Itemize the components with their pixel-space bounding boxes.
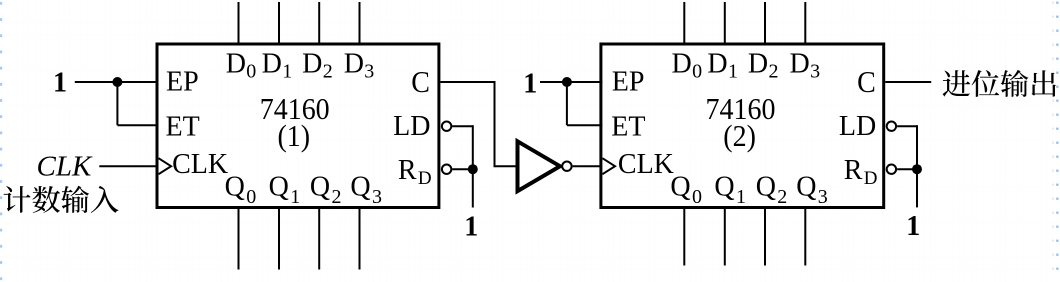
svg-text:1: 1 <box>282 61 292 83</box>
svg-text:1: 1 <box>906 211 920 242</box>
svg-text:EP: EP <box>612 67 645 98</box>
U2 RD active-low bubble <box>887 165 896 174</box>
U1 label (1) <box>277 120 310 153</box>
wire U2 D0 input stub <box>683 2 685 44</box>
wire U1 LD (horizontal from bubble) <box>452 125 473 127</box>
svg-text:C: C <box>857 66 876 99</box>
svg-text:Q: Q <box>796 172 816 203</box>
svg-text:0: 0 <box>692 186 702 208</box>
wire U2 LD (horizontal from bubble) <box>897 125 917 127</box>
svg-text:CLK: CLK <box>618 149 674 180</box>
svg-text:1: 1 <box>523 68 537 99</box>
label 计数输入 (count input) <box>4 186 119 213</box>
svg-text:D: D <box>672 48 692 79</box>
svg-text:(2): (2) <box>723 120 756 153</box>
G1 output bubble <box>562 162 571 171</box>
junction node U2 LD/RD tie <box>912 164 922 174</box>
svg-text:2: 2 <box>769 61 779 83</box>
svg-text:2: 2 <box>777 186 787 208</box>
svg-text:D: D <box>707 48 727 79</box>
wire U1 Q1 output stub <box>278 208 280 270</box>
svg-text:3: 3 <box>372 186 382 208</box>
svg-text:(1): (1) <box>277 120 310 153</box>
svg-text:1: 1 <box>464 211 478 242</box>
wire U1 D2 input stub <box>318 2 320 44</box>
junction node EP/ET tie (U1) <box>112 77 122 87</box>
U1 CLK edge-trigger symbol <box>159 158 172 174</box>
wire junction down (U1 left) <box>116 82 118 125</box>
svg-text:D: D <box>302 48 322 79</box>
svg-text:D: D <box>748 48 768 79</box>
wire U2 D1 input stub <box>724 2 726 44</box>
svg-text:D: D <box>790 48 810 79</box>
wire U2 Q3 output stub <box>804 208 806 266</box>
wire U2 D3 input stub <box>804 2 806 44</box>
counter U2 74160 (2) body <box>601 44 884 208</box>
svg-text:D: D <box>226 48 246 79</box>
U2 CLK edge-trigger symbol <box>602 158 615 174</box>
wire U1 LD (vertical drop) <box>472 125 474 169</box>
wire junction down to constant 1 (U2) <box>916 169 918 207</box>
U2 label 74160 <box>706 93 776 126</box>
wire U2 C output to carry label <box>885 81 931 83</box>
wire U2 Q1 output stub <box>724 208 726 266</box>
U2 LD active-low bubble <box>887 122 896 131</box>
svg-text:D: D <box>262 48 282 79</box>
wire U2 Q2 output stub <box>764 208 766 266</box>
wire to U1 ET <box>117 124 158 126</box>
svg-text:3: 3 <box>818 186 828 208</box>
U1 label 74160 <box>260 93 330 126</box>
svg-text:Q: Q <box>756 172 776 203</box>
U2 label (2) <box>723 120 756 153</box>
wire U1 Q3 output stub <box>359 208 361 270</box>
svg-text:Q: Q <box>714 172 734 203</box>
svg-text:R: R <box>844 155 863 186</box>
svg-text:Q: Q <box>310 172 330 203</box>
wire into inverter G1 input <box>495 165 518 167</box>
svg-text:CLK: CLK <box>172 149 228 180</box>
svg-text:3: 3 <box>810 61 820 83</box>
svg-text:CLK: CLK <box>37 151 93 183</box>
svg-text:3: 3 <box>364 61 374 83</box>
svg-text:D: D <box>344 48 364 79</box>
svg-text:0: 0 <box>246 61 256 83</box>
junction node EP/ET tie (U2) <box>562 77 572 87</box>
svg-text:C: C <box>411 66 430 99</box>
wire G1 output to U2 CLK <box>573 165 601 167</box>
wire U2 RD (horizontal from bubble) <box>897 168 917 170</box>
label 进位输出 (carry output) <box>943 70 1056 97</box>
wire constant-1 to U1 EP <box>75 81 159 83</box>
wire to U2 ET <box>567 124 603 126</box>
svg-text:1: 1 <box>53 68 67 99</box>
wire U1 Q0 output stub <box>238 208 240 270</box>
svg-text:EP: EP <box>166 67 199 98</box>
junction node U1 LD/RD tie <box>468 164 478 174</box>
U1 RD active-low bubble <box>442 165 451 174</box>
counter U1 74160 (1) body <box>157 44 439 208</box>
svg-text:2: 2 <box>323 61 333 83</box>
svg-text:LD: LD <box>839 111 876 142</box>
wire U1 D3 input stub <box>359 2 361 44</box>
U1 pin label C <box>411 66 430 99</box>
svg-text:Q: Q <box>670 172 690 203</box>
wire junction down (U2 left) <box>566 82 568 125</box>
svg-text:1: 1 <box>728 61 738 83</box>
svg-text:Q: Q <box>350 172 370 203</box>
svg-text:1: 1 <box>290 186 300 208</box>
svg-text:Q: Q <box>225 172 245 203</box>
wire U1 RD (horizontal from bubble) <box>452 168 473 170</box>
svg-text:Q: Q <box>269 172 289 203</box>
svg-text:0: 0 <box>246 186 256 208</box>
svg-text:ET: ET <box>166 111 200 142</box>
wire constant-1 to U2 EP <box>540 81 602 83</box>
svg-text:1: 1 <box>736 186 746 208</box>
wire U2 Q0 output stub <box>683 208 685 266</box>
inverter G1 <box>518 141 561 191</box>
svg-text:D: D <box>418 168 432 189</box>
wire U2 LD (vertical drop) <box>916 125 918 169</box>
svg-text:2: 2 <box>332 186 342 208</box>
svg-text:D: D <box>864 168 878 189</box>
svg-text:LD: LD <box>393 111 430 142</box>
wire CLK input to U1 <box>99 165 158 167</box>
U1 LD active-low bubble <box>442 122 451 131</box>
U2 pin label C <box>857 66 876 99</box>
wire U1 Q2 output stub <box>318 208 320 270</box>
svg-text:0: 0 <box>692 61 702 83</box>
wire junction down to constant 1 (U1) <box>472 169 474 207</box>
wire U1 D0 input stub <box>238 2 240 44</box>
svg-text:ET: ET <box>611 111 645 142</box>
svg-text:R: R <box>398 155 417 186</box>
wire U1 C output (vertical drop) <box>494 81 496 167</box>
wire U1 C output (horizontal) <box>440 81 494 83</box>
wire U1 D1 input stub <box>278 2 280 44</box>
wire U2 D2 input stub <box>764 2 766 44</box>
